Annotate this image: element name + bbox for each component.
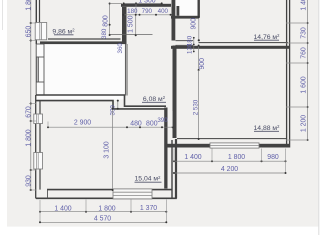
room 15,04 right wall — [164, 108, 167, 189]
bottom wall inner line — [47, 189, 172, 191]
wall between cold room and room 15,04 outer line — [36, 101, 166, 109]
step line in corridor — [110, 34, 153, 36]
dim line 4 200 — [174, 172, 286, 174]
corridor left wall upper — [122, 7, 127, 44]
page edge line left — [2, 0, 4, 30]
window in left wall of room 9,86 — [35, 23, 47, 40]
cold room window jamb bottom — [36, 81, 44, 83]
svg-text:380: 380 — [101, 28, 108, 39]
svg-text:400: 400 — [158, 8, 169, 15]
middle dim row line 2900/480/800/390 — [48, 126, 173, 128]
svg-text:900: 900 — [190, 18, 197, 30]
top dim row line — [124, 14, 171, 16]
svg-text:1 500: 1 500 — [128, 15, 135, 32]
svg-text:790: 790 — [142, 8, 153, 15]
left chain extension lines — [29, 23, 37, 190]
svg-text:650: 650 — [25, 26, 32, 38]
window in bottom wall — [113, 189, 152, 199]
svg-text:1 200: 1 200 — [301, 115, 308, 132]
svg-text:4 200: 4 200 — [221, 166, 238, 173]
svg-text:130: 130 — [186, 43, 193, 54]
dim line for 180/130 — [193, 38, 195, 52]
svg-text:360: 360 — [117, 43, 124, 54]
closet wall vertical — [177, 6, 180, 16]
svg-text:730: 730 — [301, 27, 308, 39]
svg-text:480: 480 — [130, 120, 142, 127]
left outer wall lower — [35, 95, 37, 199]
svg-text:14,76 м2: 14,76 м2 — [254, 33, 281, 41]
svg-text:180: 180 — [127, 8, 138, 15]
white room right wall thin lines — [124, 44, 126, 96]
bottom dim row line — [40, 211, 166, 213]
room 14,88 bottom wall inner line — [177, 138, 286, 140]
svg-text:3 100: 3 100 — [103, 141, 110, 158]
window in left wall of room 15,04 upper — [34, 114, 43, 124]
cold room left wall — [35, 44, 37, 95]
wall between cold room and room 15,04 inner line — [36, 95, 166, 106]
svg-text:930: 930 — [25, 175, 32, 187]
svg-text:900: 900 — [199, 58, 206, 70]
svg-text:1 400: 1 400 — [54, 205, 71, 212]
svg-text:1 400: 1 400 — [301, 0, 308, 11]
ext line 800 top to wall corner — [110, 3, 122, 5]
corridor right wall upper — [172, 0, 176, 41]
room 9,86 bottom wall — [40, 41, 127, 44]
room 9,86 bottom wall inner line — [48, 38, 121, 40]
svg-text:6,08 м2: 6,08 м2 — [143, 95, 166, 103]
svg-text:1 400: 1 400 — [184, 154, 201, 161]
svg-text:1 800: 1 800 — [98, 205, 115, 212]
svg-text:800: 800 — [146, 120, 158, 127]
right chain ticks — [307, 22, 309, 141]
dim line for 3 100 — [112, 109, 114, 190]
dim line for 2 530 — [198, 70, 200, 139]
left dimension chain line — [30, 0, 32, 190]
right dimension chain line — [307, 0, 309, 140]
top ext line — [135, 3, 137, 15]
svg-text:760: 760 — [301, 47, 308, 59]
white cold room fill — [37, 44, 125, 100]
svg-text:1 800: 1 800 — [25, 129, 32, 146]
door stub line upper — [176, 40, 194, 42]
room 14,88 bottom wall left part — [168, 144, 211, 148]
dim line for 900 lower — [198, 46, 200, 71]
dim line for 900 upper — [198, 17, 200, 40]
svg-text:800: 800 — [102, 15, 109, 27]
bottom wall outer line — [36, 197, 177, 199]
svg-text:980: 980 — [267, 154, 279, 161]
cold room glazing — [36, 57, 38, 82]
svg-text:9,86 м2: 9,86 м2 — [52, 28, 75, 36]
top dim line cut — [124, 2, 162, 4]
svg-text:1 300: 1 300 — [138, 0, 155, 5]
svg-text:390: 390 — [157, 117, 168, 124]
svg-text:14,88 м2: 14,88 м2 — [254, 124, 281, 132]
wall C between 14,76 and 14,88 — [171, 46, 290, 49]
dim line for 300 — [117, 101, 119, 109]
room 14,88 bottom wall right part — [259, 144, 290, 148]
right bottom dim row line — [174, 160, 286, 162]
svg-text:1 800: 1 800 — [228, 154, 245, 161]
svg-text:15,04 м2: 15,04 м2 — [135, 175, 162, 183]
window in room 14,88 bottom wall — [210, 143, 259, 148]
page edge line right — [318, 0, 320, 235]
wall A top of corridor — [121, 4, 171, 7]
white entrance niche fill — [176, 0, 199, 16]
wall C inner thin line — [199, 42, 289, 44]
room 14,76 left wall upper — [198, 0, 200, 17]
left outer wall upper — [35, 0, 37, 23]
right outer wall — [286, 0, 288, 148]
room 15,04 right wall outer line — [171, 140, 173, 198]
dim line for 800/380 — [109, 4, 111, 36]
left wall stub below window — [35, 40, 37, 44]
corridor right wall lower / room 14,88 left wall — [173, 46, 177, 139]
cold room window jamb top — [36, 56, 44, 58]
svg-text:1 800: 1 800 — [25, 0, 32, 11]
right section outer wall below 14,88 — [175, 139, 177, 198]
svg-text:1 370: 1 370 — [140, 205, 157, 212]
svg-text:670: 670 — [25, 106, 32, 118]
left chain ticks — [30, 22, 32, 191]
svg-text:2 900: 2 900 — [74, 120, 91, 127]
bottom wall inner left corner vertical — [47, 190, 49, 199]
svg-text:1 600: 1 600 — [301, 76, 308, 93]
ext lines right bottom — [174, 149, 286, 174]
dim line 4 570 — [40, 221, 166, 223]
svg-text:4 570: 4 570 — [94, 216, 111, 223]
dim line for 1 500 — [135, 15, 137, 36]
door stub line lower — [176, 44, 194, 46]
closet wall B horizontal — [171, 16, 199, 19]
cold room top tick — [36, 43, 44, 45]
ext lines for middle row — [47, 122, 49, 128]
right chain extension lines — [286, 23, 309, 140]
window in left wall of room 15,04 lower — [34, 153, 43, 170]
ext lines bottom — [40, 200, 166, 223]
